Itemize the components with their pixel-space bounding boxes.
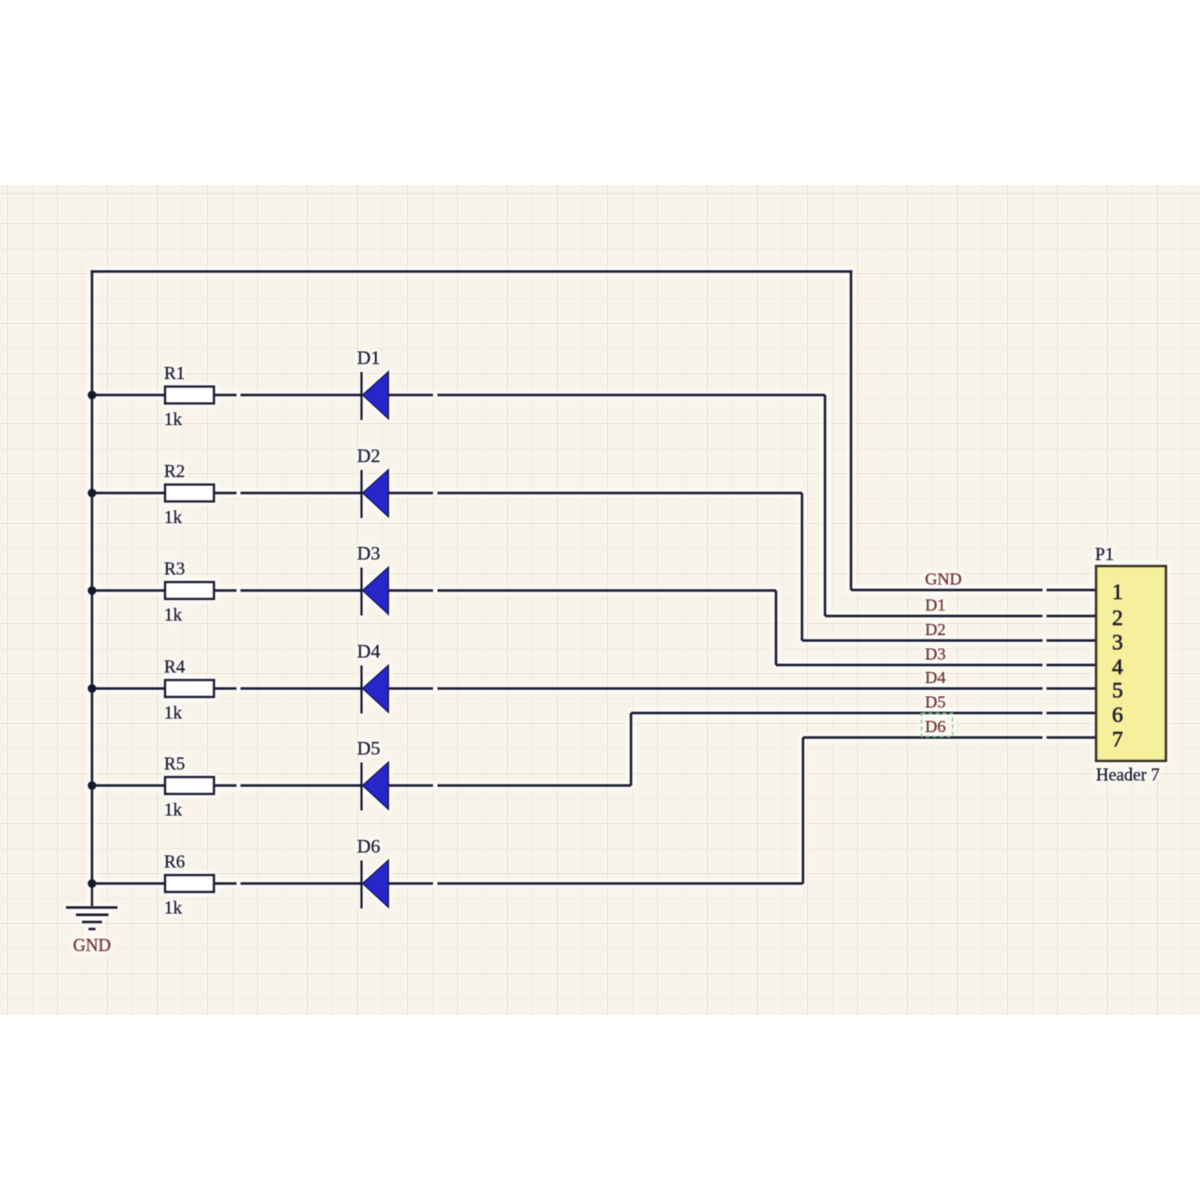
wire: R5 to D5 [214,784,362,787]
diode D4 triangle [363,665,389,713]
svg-text:1k: 1k [164,605,182,625]
label R1 value 1k [164,409,182,429]
wire: D5 vertical jog [630,713,633,786]
svg-text:2: 2 [1112,605,1123,630]
wire: D3 anode run [389,589,777,592]
diode D4 (LED), cathode bar [360,666,362,714]
svg-text:1k: 1k [164,409,182,429]
wire: rail to R6 [92,882,165,885]
svg-text:GND: GND [73,935,111,955]
node junction on rail at row 4 [88,684,97,693]
pin number 1 of P1 [1112,579,1123,604]
label R3 value 1k [164,605,182,625]
svg-text:Header 7: Header 7 [1096,765,1160,785]
svg-text:D3: D3 [925,645,946,664]
label D2 designator [357,446,380,467]
label D1 designator [357,348,380,369]
svg-text:D4: D4 [357,642,381,663]
svg-text:R4: R4 [164,657,185,677]
wire: pin 3 stub into header [1047,639,1098,642]
net label GND [925,570,962,589]
diode D5 triangle [363,762,389,810]
wire: R2 to D2 [214,492,362,495]
pin number 4 of P1 [1112,654,1123,679]
label R4 value 1k [164,703,182,723]
wire: D2 anode run [389,492,803,495]
resistor R1 [165,387,214,404]
wire: rail to R4 [92,687,165,690]
svg-text:1k: 1k [164,800,182,820]
svg-text:D2: D2 [925,620,946,639]
pin number 5 of P1 [1112,678,1123,703]
net label D5 [925,693,946,712]
diode D1 (LED), cathode bar [360,372,362,420]
wire: rail to R5 [92,784,165,787]
svg-text:D1: D1 [357,348,380,369]
label R1 designator [164,363,185,383]
svg-text:P1: P1 [1095,544,1114,564]
svg-text:GND: GND [925,570,962,589]
net label D4 [925,668,946,687]
wire: rail to R1 [92,394,165,397]
wire: R4 to D4 [214,687,362,690]
svg-text:R1: R1 [164,363,185,383]
diode D3 triangle [363,567,389,615]
svg-text:1: 1 [1112,579,1123,604]
svg-text:4: 4 [1112,654,1123,679]
wire: left vertical GND rail [91,270,94,885]
wire: net D1 to header pin 2 [825,615,1043,618]
label R6 designator [164,852,185,872]
diode D6 (LED), cathode bar [360,861,362,909]
wire: pin 2 stub into header [1047,615,1098,618]
wire: pin 1 stub into header [1047,589,1098,592]
wire: D1 vertical jog [824,395,827,616]
label R2 value 1k [164,507,182,527]
wire: net D2 to header pin 3 [802,639,1043,642]
resistor R2 [165,485,214,502]
wire: pin 7 stub into header [1047,736,1098,739]
resistor R4 [165,680,214,697]
label GND (power net) [73,935,111,955]
node junction on rail at row 6 [88,879,97,888]
wire: pin 4 stub into header [1047,664,1098,667]
svg-text:R6: R6 [164,852,185,872]
wire: D3 vertical jog [775,591,778,666]
resistor R3 [165,582,214,599]
wire: D4 anode to header pin 5 (straight) [389,687,1043,690]
svg-text:1k: 1k [164,507,182,527]
label R3 designator [164,559,185,579]
wire: rail to R3 [92,589,165,592]
wire: R3 to D3 [214,589,362,592]
net label D2 [925,620,946,639]
svg-text:D6: D6 [925,717,946,736]
selection box around net label D6 [922,714,953,737]
svg-text:6: 6 [1112,702,1123,727]
node junction on rail at row 5 [88,781,97,790]
svg-text:1k: 1k [164,898,182,918]
svg-text:7: 7 [1112,727,1123,752]
label D6 designator [357,837,380,858]
svg-text:R5: R5 [164,754,185,774]
wire: top bus from left rail to GND drop [91,270,853,273]
label Header 7 type [1096,765,1160,785]
label R5 designator [164,754,185,774]
wire: D5 anode run [389,784,632,787]
svg-text:3: 3 [1112,630,1123,655]
net label D6 [925,717,946,736]
label R6 value 1k [164,898,182,918]
wire: pin 5 stub into header [1047,687,1098,690]
svg-text:D1: D1 [925,596,946,615]
label R4 designator [164,657,185,677]
svg-text:1k: 1k [164,703,182,723]
wire: net D6 to header pin 7 [803,736,1043,739]
svg-text:D6: D6 [357,837,380,858]
wire: pin 6 stub into header [1047,712,1098,715]
resistor R5 [165,777,214,794]
diode D6 triangle [363,860,389,908]
svg-text:D3: D3 [357,544,380,565]
connector P1 header body [1096,566,1166,761]
wire: D2 vertical jog [801,493,804,641]
label D3 designator [357,544,380,565]
label P1 designator [1095,544,1114,564]
pin number 3 of P1 [1112,630,1123,655]
diode D2 (LED), cathode bar [360,470,362,518]
label D4 designator [357,642,381,663]
svg-text:5: 5 [1112,678,1123,703]
pin number 7 of P1 [1112,727,1123,752]
node junction on rail at row 1 [88,391,97,400]
svg-text:D5: D5 [925,693,946,712]
svg-text:R3: R3 [164,559,185,579]
diode D3 (LED), cathode bar [360,568,362,616]
wire: D1 anode run [389,394,826,397]
wire: D6 anode run [389,882,804,885]
wire: R1 to D1 [214,394,362,397]
wire: net D5 to header pin 6 [631,712,1043,715]
node junction on rail at row 2 [88,489,97,498]
wire: rail to R2 [92,492,165,495]
diode D2 triangle [363,470,389,518]
pin number 6 of P1 [1112,702,1123,727]
pin number 2 of P1 [1112,605,1123,630]
node junction on rail at row 3 [88,586,97,595]
ground symbol [66,884,118,930]
diode D5 (LED), cathode bar [360,763,362,811]
label D5 designator [357,739,380,760]
label R2 designator [164,461,185,481]
wire: net D3 to header pin 4 [776,664,1043,667]
net label D3 [925,645,946,664]
svg-text:D5: D5 [357,739,380,760]
wire: D6 vertical jog [802,738,805,884]
net label D1 [925,596,946,615]
resistor R6 [165,875,214,892]
svg-text:D4: D4 [925,668,946,687]
svg-text:R2: R2 [164,461,185,481]
svg-text:D2: D2 [357,446,380,467]
diode D1 triangle [363,372,389,420]
wire: GND net drop to header pin 1 [851,270,1043,590]
wire: R6 to D6 [214,882,362,885]
label R5 value 1k [164,800,182,820]
